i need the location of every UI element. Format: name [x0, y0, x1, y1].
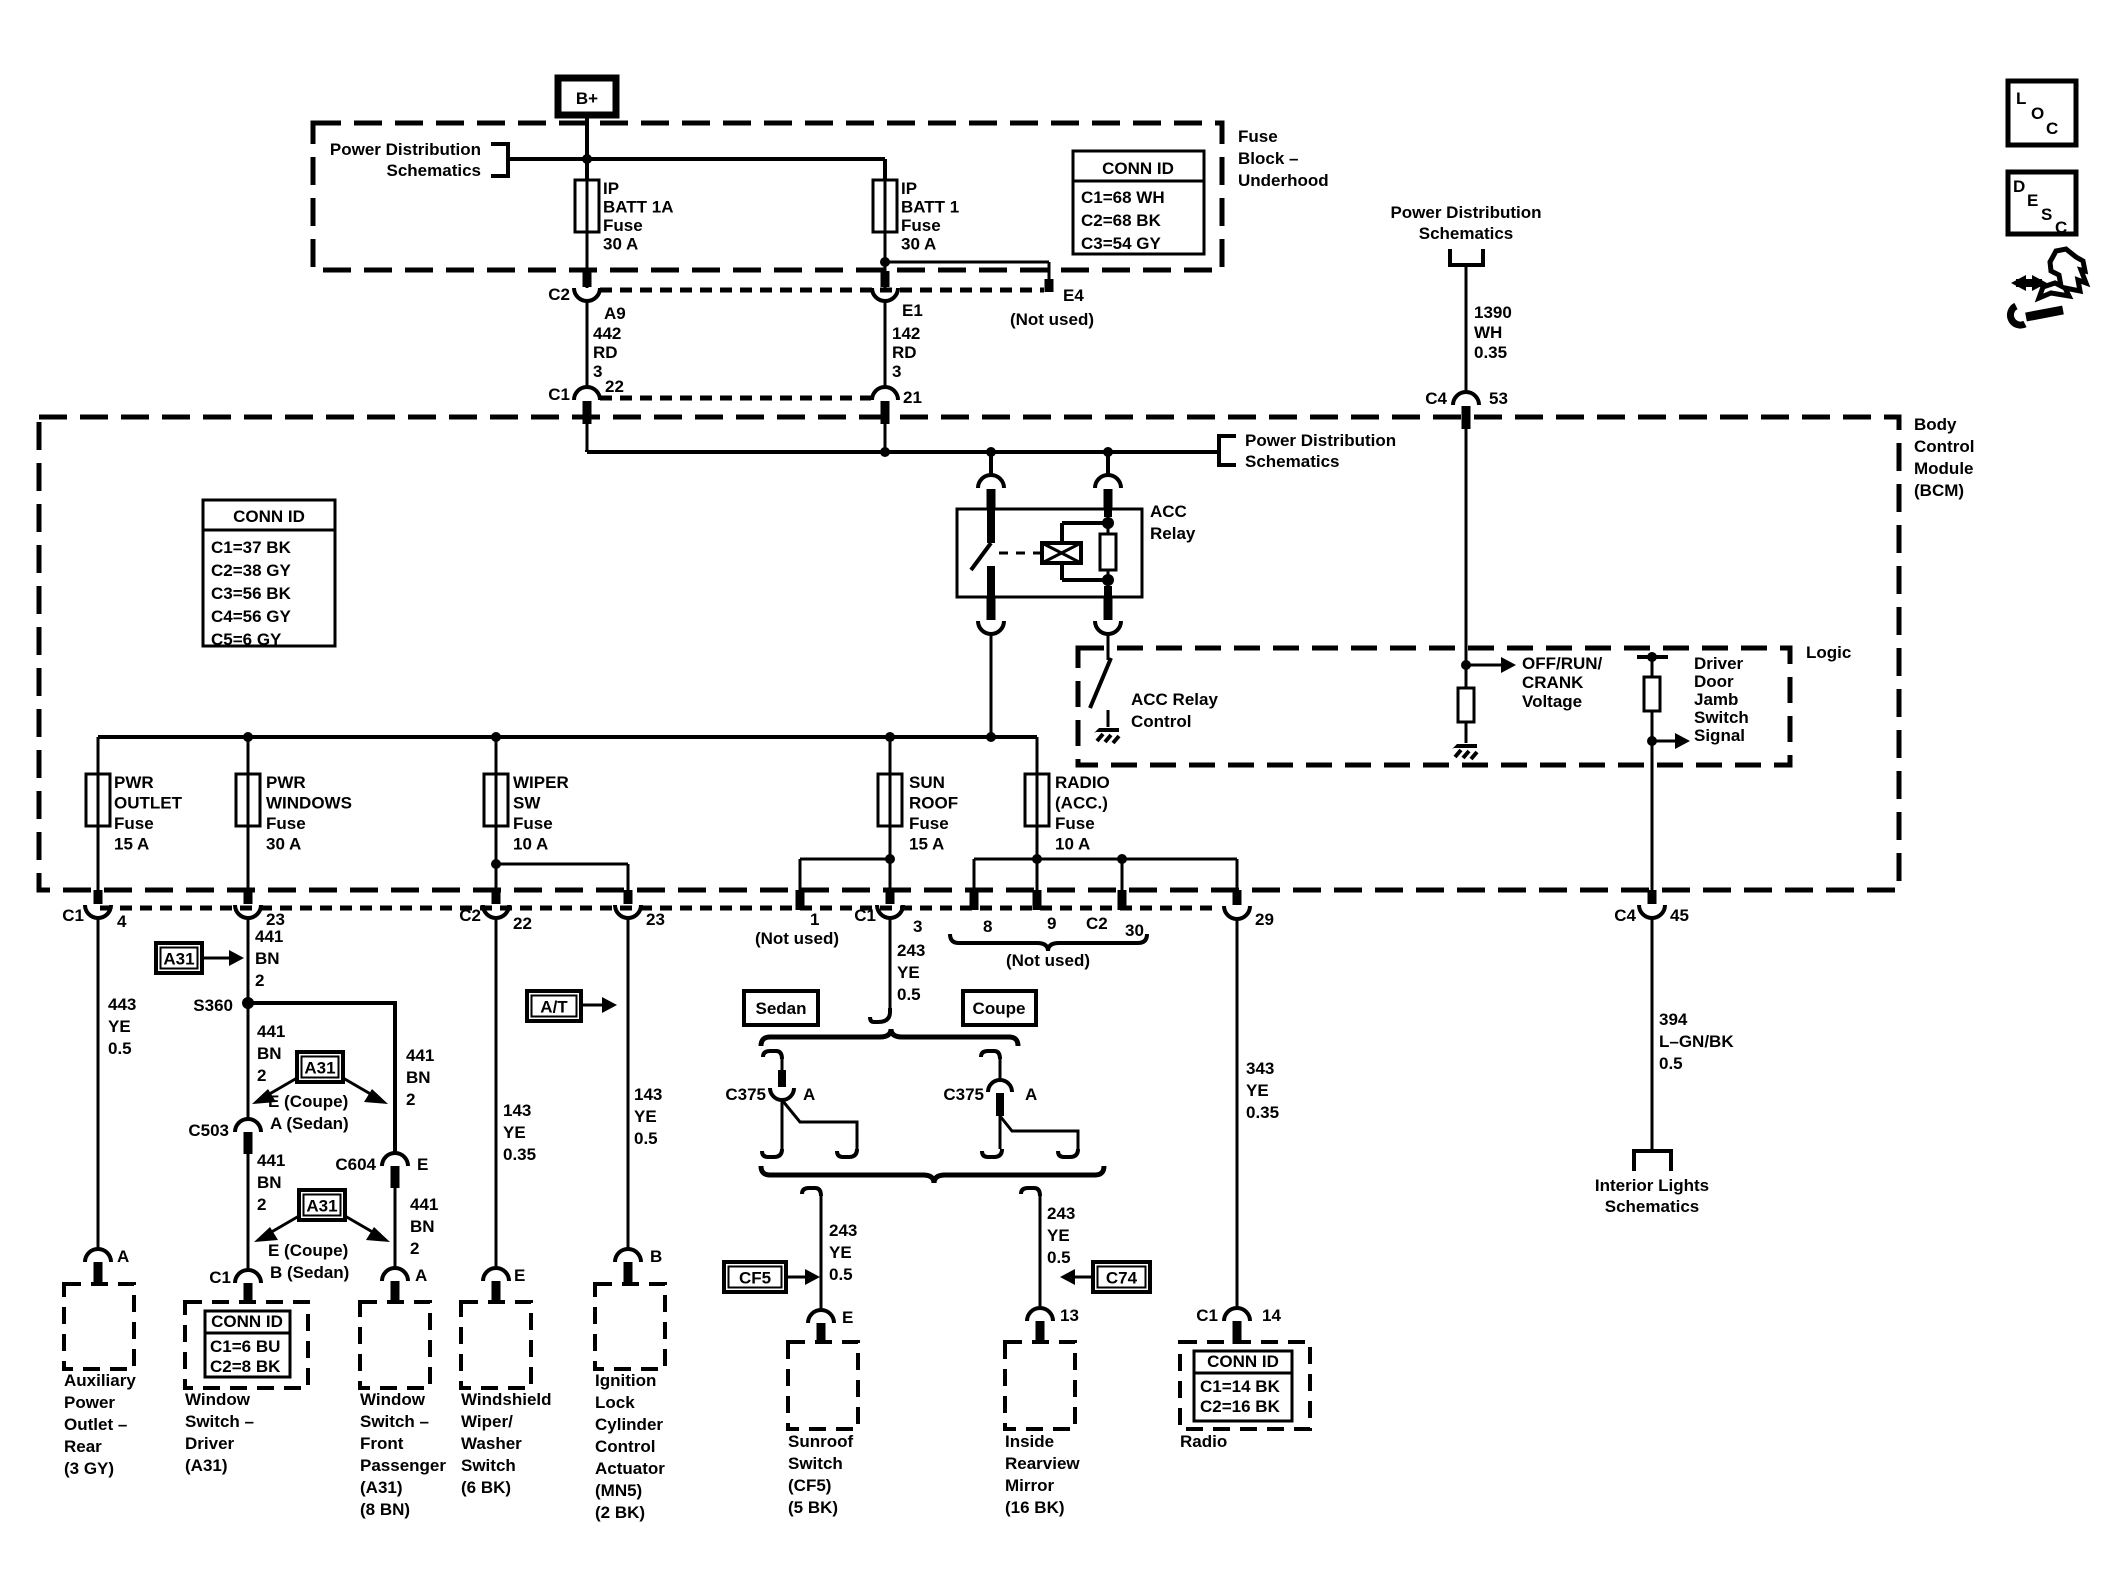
svg-text:3: 3 [892, 362, 901, 381]
svg-text:C2: C2 [459, 906, 481, 925]
label Window Switch Driver [185, 1390, 254, 1475]
battery terminal B+ box [558, 78, 616, 115]
svg-text:C1: C1 [62, 906, 84, 925]
svg-text:243: 243 [897, 941, 925, 960]
svg-text:C4: C4 [1614, 906, 1636, 925]
svg-text:C1=6 BU: C1=6 BU [210, 1337, 280, 1356]
svg-text:243: 243 [1047, 1204, 1075, 1223]
svg-text:PWR: PWR [266, 773, 306, 792]
connector C375 sedan [725, 1051, 815, 1104]
label E Coupe A Sedan [268, 1092, 349, 1133]
svg-text:142: 142 [892, 324, 920, 343]
ACC relay control switch [1090, 658, 1119, 743]
svg-text:Inside: Inside [1005, 1432, 1054, 1451]
svg-text:443: 443 [108, 995, 136, 1014]
svg-text:Washer: Washer [461, 1434, 522, 1453]
svg-text:0.5: 0.5 [1047, 1248, 1071, 1267]
label Inside Rearview Mirror [1005, 1432, 1080, 1517]
svg-text:Window: Window [185, 1390, 251, 1409]
svg-text:Relay: Relay [1150, 524, 1196, 543]
svg-text:CONN ID: CONN ID [1102, 159, 1174, 178]
connector C604 [335, 1153, 428, 1188]
svg-text:30: 30 [1125, 921, 1144, 940]
svg-text:Switch –: Switch – [185, 1412, 254, 1431]
brace not used 8 9 30 [950, 934, 1147, 970]
off-page bracket power distribution [491, 144, 508, 176]
svg-text:CONN ID: CONN ID [233, 507, 305, 526]
svg-text:Fuse: Fuse [603, 216, 643, 235]
junction fuse bus sunroof [885, 732, 895, 742]
wire 441 BN 2 below C503 [248, 1151, 285, 1270]
brace sedan coupe top [761, 1029, 1018, 1046]
svg-text:C604: C604 [335, 1155, 376, 1174]
label ACC Relay Control [1131, 690, 1218, 731]
radio box [1180, 1342, 1310, 1429]
svg-text:BN: BN [410, 1217, 435, 1236]
svg-text:(MN5): (MN5) [595, 1481, 642, 1500]
junction B+ node [582, 154, 592, 164]
svg-text:Switch: Switch [1694, 708, 1749, 727]
svg-text:Door: Door [1694, 672, 1734, 691]
svg-text:Window: Window [360, 1390, 426, 1409]
dotted connector line A9-E1-E4 [600, 288, 1044, 293]
BCM fuse bus [98, 735, 1037, 739]
svg-text:E: E [2027, 191, 2038, 210]
svg-text:C1=37 BK: C1=37 BK [211, 538, 292, 557]
wire fuse 1 to connector E1 [884, 180, 887, 288]
off-page bracket interior lights [1634, 1151, 1671, 1171]
svg-text:Cylinder: Cylinder [595, 1415, 663, 1434]
connector C1 22 [548, 377, 624, 424]
svg-text:RD: RD [892, 343, 917, 362]
svg-text:A (Sedan): A (Sedan) [270, 1114, 349, 1133]
off-page bracket top right [1450, 249, 1483, 265]
label Radio [1180, 1432, 1227, 1451]
svg-text:(8 BN): (8 BN) [360, 1500, 410, 1519]
svg-text:Switch –: Switch – [360, 1412, 429, 1431]
svg-text:Jamb: Jamb [1694, 690, 1738, 709]
svg-text:C3=56 BK: C3=56 BK [211, 584, 292, 603]
svg-text:YE: YE [108, 1017, 131, 1036]
wire wiper fuse split [491, 737, 628, 890]
junction bus relay switch [986, 447, 996, 457]
BCM feed bus [587, 450, 1219, 452]
svg-text:Logic: Logic [1806, 643, 1851, 662]
reference A31 both branches upper [252, 1052, 388, 1104]
svg-text:30 A: 30 A [603, 235, 638, 254]
svg-text:Body: Body [1914, 415, 1957, 434]
reference AT arrow [527, 991, 617, 1021]
svg-text:0.5: 0.5 [108, 1039, 132, 1058]
svg-text:13: 13 [1060, 1306, 1079, 1325]
svg-text:PWR: PWR [114, 773, 154, 792]
svg-text:C5=6 GY: C5=6 GY [211, 630, 282, 649]
svg-text:C2=68 BK: C2=68 BK [1081, 211, 1162, 230]
svg-text:YE: YE [897, 963, 920, 982]
driver door jamb node [1637, 652, 1668, 662]
svg-text:(A31): (A31) [185, 1456, 228, 1475]
svg-text:C74: C74 [1106, 1269, 1138, 1288]
arrow driver door jamb signal [1652, 733, 1690, 749]
window switch driver box [185, 1302, 308, 1388]
svg-text:C2: C2 [1086, 914, 1108, 933]
svg-text:E (Coupe): E (Coupe) [268, 1241, 348, 1260]
relay switch contact [971, 509, 991, 597]
wire 1390 WH 0.35 [1466, 265, 1512, 392]
svg-text:Power: Power [64, 1393, 115, 1412]
svg-text:Schematics: Schematics [1245, 452, 1340, 471]
svg-text:143: 143 [503, 1101, 531, 1120]
svg-text:Fuse: Fuse [901, 216, 941, 235]
svg-text:(3 GY): (3 GY) [64, 1459, 114, 1478]
svg-text:L: L [2016, 89, 2026, 108]
svg-text:WH: WH [1474, 323, 1502, 342]
relay coil element [1042, 543, 1081, 563]
svg-text:Outlet –: Outlet – [64, 1415, 127, 1434]
svg-text:Driver: Driver [185, 1434, 235, 1453]
label ACC Relay [1150, 502, 1196, 543]
svg-text:(A31): (A31) [360, 1478, 403, 1497]
svg-text:Radio: Radio [1180, 1432, 1227, 1451]
sunroof switch box [788, 1342, 858, 1429]
connector C1 3 [854, 890, 922, 936]
wire 142 RD 3 [885, 301, 920, 387]
svg-text:0.5: 0.5 [897, 985, 921, 1004]
svg-text:3: 3 [593, 362, 602, 381]
sedan C375 branch wires [762, 1100, 857, 1157]
label 441 BN 2 right branch [406, 1046, 434, 1109]
wire 243 YE 0.5 sunroof [802, 1188, 857, 1310]
terminal 9 not used [1037, 890, 1056, 933]
label Driver Door Jamb Switch Signal [1694, 654, 1749, 745]
fuse SUN ROOF 15A [878, 773, 958, 854]
svg-text:3: 3 [913, 917, 922, 936]
svg-text:0.35: 0.35 [1246, 1103, 1279, 1122]
svg-text:YE: YE [634, 1107, 657, 1126]
svg-text:Fuse: Fuse [909, 814, 949, 833]
svg-text:BN: BN [255, 949, 280, 968]
svg-text:CONN ID: CONN ID [1207, 1352, 1279, 1371]
svg-text:30 A: 30 A [266, 835, 301, 854]
svg-text:A31: A31 [304, 1059, 335, 1078]
fuse IP BATT 1A [575, 179, 674, 254]
wire relay coil to logic [1107, 634, 1110, 660]
relay resistor [1100, 509, 1116, 597]
wire pwr outlet fuse to C1 4 [97, 737, 100, 890]
svg-text:30 A: 30 A [901, 235, 936, 254]
svg-text:A31: A31 [306, 1197, 337, 1216]
svg-text:10 A: 10 A [1055, 835, 1090, 854]
connector C503 [188, 1119, 261, 1154]
wire S360 branch to C604 [248, 1003, 395, 1153]
svg-text:0.35: 0.35 [503, 1145, 536, 1164]
label Logic [1806, 643, 1851, 662]
svg-text:E: E [514, 1266, 525, 1285]
connector 23 pwr windows [235, 890, 285, 929]
window switch front passenger box [360, 1302, 430, 1388]
svg-text:C4=56 GY: C4=56 GY [211, 607, 292, 626]
wire 442 RD 3 [587, 301, 621, 387]
svg-text:OUTLET: OUTLET [114, 794, 183, 813]
wire driver door jamb down [1651, 711, 1654, 890]
svg-text:8: 8 [983, 917, 992, 936]
svg-text:L–GN/BK: L–GN/BK [1659, 1032, 1734, 1051]
svg-text:10 A: 10 A [513, 835, 548, 854]
label Ignition Lock Cylinder Control Actuator [595, 1371, 665, 1522]
svg-text:Passenger: Passenger [360, 1456, 446, 1475]
svg-text:441: 441 [406, 1046, 434, 1065]
connector relay switch bottom [978, 598, 1004, 634]
wire 443 YE 0.5 [98, 918, 136, 1249]
svg-text:BATT 1: BATT 1 [901, 198, 959, 217]
wire radio fuse split [974, 737, 1237, 890]
svg-text:IP: IP [603, 179, 619, 198]
connector C4 53 [1425, 389, 1508, 429]
conn id table window switch driver [205, 1311, 290, 1377]
reference Sedan box [744, 991, 818, 1025]
inside rearview mirror box [1005, 1342, 1075, 1429]
svg-text:Fuse: Fuse [114, 814, 154, 833]
fuse block underhood dashed box [313, 123, 1222, 270]
wire off run crank voltage [1465, 429, 1468, 688]
label OFF RUN CRANK Voltage [1522, 654, 1603, 711]
svg-text:Schematics: Schematics [1605, 1197, 1700, 1216]
wire sunroof fuse split [800, 737, 895, 890]
svg-text:Control: Control [1131, 712, 1191, 731]
body control module dashed box [39, 417, 1899, 890]
connector C2 22 [459, 890, 532, 933]
wire bus to relay switch [989, 452, 993, 476]
label Windshield Wiper Washer Switch [461, 1390, 552, 1497]
svg-text:22: 22 [605, 377, 624, 396]
reference A31 arrow [156, 943, 244, 973]
junction bus relay coil [1103, 447, 1113, 457]
svg-text:15 A: 15 A [909, 835, 944, 854]
connector 21 [872, 387, 922, 424]
svg-text:Coupe: Coupe [973, 999, 1026, 1018]
fuse RADIO ACC 10A [1025, 773, 1110, 854]
wire 21 into BCM [884, 424, 887, 452]
coupe C375 branch wires [982, 1116, 1078, 1157]
svg-text:9: 9 [1047, 914, 1056, 933]
svg-text:Actuator: Actuator [595, 1459, 665, 1478]
connector C1 4 [62, 890, 127, 931]
svg-text:Windshield: Windshield [461, 1390, 552, 1409]
svg-text:2: 2 [406, 1090, 415, 1109]
reference CF5 arrow [724, 1262, 820, 1292]
svg-text:S: S [2041, 205, 2052, 224]
junction fuse bus pwr windows [243, 732, 253, 742]
svg-text:E4: E4 [1063, 286, 1084, 305]
svg-text:Switch: Switch [461, 1456, 516, 1475]
svg-text:Fuse: Fuse [1238, 127, 1278, 146]
svg-text:B (Sedan): B (Sedan) [270, 1263, 349, 1282]
connector relay coil bottom [1095, 598, 1121, 634]
svg-text:Control: Control [1914, 437, 1974, 456]
svg-text:WINDOWS: WINDOWS [266, 794, 352, 813]
svg-text:53: 53 [1489, 389, 1508, 408]
svg-text:CF5: CF5 [739, 1269, 771, 1288]
svg-text:(BCM): (BCM) [1914, 481, 1964, 500]
svg-text:SUN: SUN [909, 773, 945, 792]
relay coil loop [1062, 523, 1108, 580]
splice S360 [193, 996, 254, 1015]
label E4 not used [1010, 286, 1094, 329]
svg-text:Sunroof: Sunroof [788, 1432, 853, 1451]
legend DESC box [2008, 172, 2076, 237]
svg-text:A9: A9 [604, 304, 626, 323]
svg-text:Voltage: Voltage [1522, 692, 1582, 711]
connector 29 [1224, 890, 1274, 929]
resistor driver door jamb [1644, 657, 1660, 711]
svg-text:(5 BK): (5 BK) [788, 1498, 838, 1517]
svg-text:1390: 1390 [1474, 303, 1512, 322]
svg-text:143: 143 [634, 1085, 662, 1104]
wire bus to relay coil [1106, 452, 1110, 476]
svg-text:C1: C1 [548, 385, 570, 404]
svg-text:C2: C2 [548, 285, 570, 304]
svg-text:BATT 1A: BATT 1A [603, 198, 674, 217]
svg-text:0.5: 0.5 [829, 1265, 853, 1284]
svg-text:C: C [2046, 119, 2058, 138]
svg-text:ACC Relay: ACC Relay [1131, 690, 1218, 709]
junction E4 tap [880, 257, 890, 267]
wire 143 YE 0.35 [496, 918, 536, 1268]
svg-text:4: 4 [117, 912, 127, 931]
connector relay switch top [978, 475, 1004, 508]
svg-text:(16 BK): (16 BK) [1005, 1498, 1065, 1517]
connector 13 mirror [1027, 1306, 1079, 1344]
svg-text:Signal: Signal [1694, 726, 1745, 745]
label 441 BN 2 below S360 [257, 1022, 285, 1085]
terminal C2 30 not used [1086, 890, 1144, 940]
svg-text:C3=54 GY: C3=54 GY [1081, 234, 1162, 253]
svg-text:YE: YE [829, 1243, 852, 1262]
label Window Switch Front Passenger [360, 1390, 446, 1519]
wire 343 YE 0.35 [1237, 919, 1279, 1308]
svg-text:Front: Front [360, 1434, 404, 1453]
svg-text:(Not used): (Not used) [1006, 951, 1090, 970]
svg-text:15 A: 15 A [114, 835, 149, 854]
svg-text:C: C [2055, 218, 2067, 237]
wire 243 YE 0.5 from C1 3 [890, 918, 925, 1008]
arrow off run crank [1466, 657, 1516, 673]
connector C1 14 radio [1196, 1306, 1281, 1344]
svg-text:E: E [842, 1308, 853, 1327]
connector E1 [872, 288, 923, 320]
svg-text:CRANK: CRANK [1522, 673, 1584, 692]
svg-text:YE: YE [503, 1123, 526, 1142]
svg-text:A: A [1025, 1085, 1037, 1104]
svg-text:A: A [415, 1266, 427, 1285]
svg-text:Power Distribution: Power Distribution [330, 140, 481, 159]
svg-text:441: 441 [410, 1195, 438, 1214]
wire B+ to fuse block [585, 115, 589, 180]
svg-text:ACC: ACC [1150, 502, 1187, 521]
svg-text:Driver: Driver [1694, 654, 1744, 673]
svg-text:OFF/RUN/: OFF/RUN/ [1522, 654, 1603, 673]
wire to E4 [885, 262, 1049, 292]
label Sunroof Switch CF5 [788, 1432, 853, 1517]
wire fuse 1A to connector A9 [586, 180, 589, 288]
svg-text:Rear: Rear [64, 1437, 102, 1456]
svg-text:Interior Lights: Interior Lights [1595, 1176, 1709, 1195]
dotted connector line BCM bottom [100, 906, 1215, 911]
junction relay coil bottom [1102, 574, 1114, 586]
svg-text:Fuse: Fuse [266, 814, 306, 833]
connector E windshield [483, 1266, 525, 1304]
label Auxiliary Power Outlet Rear [64, 1371, 136, 1478]
svg-text:441: 441 [255, 927, 283, 946]
conn id table radio [1194, 1351, 1292, 1421]
connector A window switch front [382, 1266, 427, 1304]
svg-text:(Not used): (Not used) [755, 929, 839, 948]
dotted connector line 22-21 [600, 396, 871, 401]
svg-text:2: 2 [255, 971, 264, 990]
svg-text:45: 45 [1670, 906, 1689, 925]
svg-text:2: 2 [410, 1239, 419, 1258]
wire power distribution bus [508, 157, 885, 161]
svg-text:RD: RD [593, 343, 618, 362]
connector E sunroof switch [808, 1308, 853, 1344]
wire pwr windows fuse to 23 [247, 737, 250, 890]
svg-text:BN: BN [406, 1068, 431, 1087]
svg-text:0.5: 0.5 [634, 1129, 658, 1148]
connector B ignition [615, 1247, 662, 1285]
relay actuation dashed link [999, 552, 1040, 555]
svg-text:Underhood: Underhood [1238, 171, 1329, 190]
svg-text:ROOF: ROOF [909, 794, 958, 813]
svg-text:A: A [803, 1085, 815, 1104]
junction bus 21 [880, 447, 890, 457]
aux power outlet box [64, 1284, 134, 1369]
svg-text:Schematics: Schematics [387, 161, 482, 180]
svg-text:YE: YE [1047, 1226, 1070, 1245]
svg-text:C4: C4 [1425, 389, 1447, 408]
svg-text:C375: C375 [943, 1085, 984, 1104]
svg-text:Auxiliary: Auxiliary [64, 1371, 136, 1390]
svg-text:A/T: A/T [540, 998, 568, 1017]
label Power Distribution Schematics (BCM) [1245, 431, 1396, 471]
svg-text:Sedan: Sedan [755, 999, 806, 1018]
svg-text:Fuse: Fuse [1055, 814, 1095, 833]
wire 143 YE 0.5 [628, 918, 662, 1249]
svg-text:Power Distribution: Power Distribution [1245, 431, 1396, 450]
svg-text:Block –: Block – [1238, 149, 1298, 168]
svg-text:O: O [2031, 104, 2044, 123]
svg-text:BN: BN [257, 1173, 282, 1192]
svg-text:(2 BK): (2 BK) [595, 1503, 645, 1522]
svg-text:C1: C1 [854, 906, 876, 925]
svg-text:Ignition: Ignition [595, 1371, 656, 1390]
label E Coupe B Sedan [268, 1241, 349, 1282]
legend LOC box [2008, 81, 2076, 145]
off-page bracket power distribution BCM [1219, 436, 1236, 465]
svg-text:A31: A31 [163, 950, 194, 969]
conn id table BCM [203, 500, 335, 649]
svg-text:IP: IP [901, 179, 917, 198]
windshield wiper washer box [461, 1302, 531, 1388]
connector relay coil top [1095, 475, 1121, 508]
svg-text:Fuse: Fuse [513, 814, 553, 833]
connector 23 wiper [615, 890, 665, 929]
svg-text:0.5: 0.5 [1659, 1054, 1683, 1073]
svg-text:C2=8 BK: C2=8 BK [210, 1357, 281, 1376]
svg-text:C1: C1 [209, 1268, 231, 1287]
wire 243 YE 0.5 mirror [1021, 1188, 1075, 1308]
wire 441 BN 2 from 23 [248, 918, 283, 1119]
fuse WIPER SW 10A [484, 773, 569, 854]
